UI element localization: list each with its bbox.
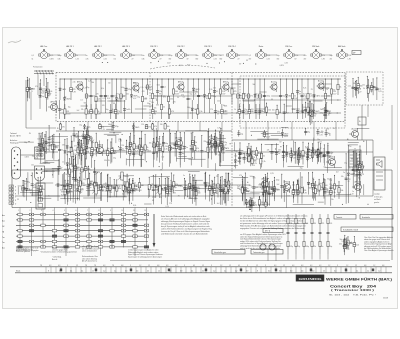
capacitor C66 50µ (204, 173, 210, 193)
capacitor C87 10µ (288, 181, 298, 198)
capacitor C81 50µ (306, 149, 312, 161)
svg-text:5k: 5k (286, 153, 288, 155)
wire (363, 184, 365, 195)
svg-text:47k: 47k (277, 131, 280, 133)
svg-text:10k: 10k (109, 188, 112, 190)
wire (95, 100, 106, 102)
socket Bu3 (35, 166, 45, 181)
junction (236, 113, 237, 114)
svg-text:5n: 5n (343, 172, 345, 174)
svg-text:10k: 10k (31, 165, 34, 167)
svg-text:15k: 15k (362, 85, 365, 87)
capacitor C28 500p (316, 129, 323, 137)
diode D29 (187, 100, 198, 119)
resistor R101 15k (112, 179, 122, 197)
junction (254, 64, 257, 65)
wire (321, 95, 333, 97)
resistor R24 5k (156, 95, 165, 119)
svg-text:1n: 1n (267, 191, 269, 193)
svg-text:6,3: 6,3 (312, 270, 314, 272)
svg-text:15k: 15k (67, 192, 70, 194)
resistor R125 2,2k (207, 180, 217, 205)
svg-text:Wiedergabe: Wiedergabe (10, 143, 19, 145)
svg-text:Klang: Klang (162, 190, 166, 192)
resistor R93 10k (102, 175, 112, 203)
svg-text:1k: 1k (237, 188, 239, 190)
resistor R87 470 (79, 173, 84, 194)
junction (30, 202, 31, 203)
wire (275, 246, 277, 261)
svg-text:bei siehe Ohm Chassis: bei siehe Ohm Chassis (82, 248, 99, 250)
wire (318, 87, 329, 89)
svg-text:1,5k: 1,5k (303, 107, 306, 109)
svg-text:120: 120 (83, 170, 86, 172)
junction (190, 113, 191, 114)
diode D150 (286, 145, 293, 162)
diode D143 (185, 176, 196, 198)
svg-text:12: 12 (76, 265, 78, 267)
svg-text:OA70: OA70 (28, 188, 32, 191)
svg-text:47n: 47n (352, 87, 355, 89)
svg-text:6,3: 6,3 (301, 265, 303, 267)
resistor R65 15k (91, 133, 101, 157)
capacitor C47 22n (155, 136, 165, 163)
svg-text:0,1: 0,1 (70, 270, 72, 272)
svg-text:270: 270 (213, 88, 216, 90)
resistor R42 2,2k (255, 79, 265, 114)
wire (353, 169, 355, 177)
resistor R46 1,5k (303, 79, 313, 114)
wire (52, 167, 62, 169)
wire bus mid D (12, 169, 392, 171)
resistor R219 56k (245, 197, 255, 208)
svg-text:45: 45 (147, 270, 149, 272)
diode D95 (103, 174, 114, 198)
svg-text:47k: 47k (37, 183, 40, 185)
capacitor C69 25µ (194, 182, 200, 200)
svg-text:78: 78 (40, 265, 42, 267)
capacitor C128 4,7n (320, 107, 330, 122)
AFC unit outline (346, 72, 383, 105)
wire (155, 128, 157, 141)
svg-text:78: 78 (94, 265, 96, 267)
resistor R54 100 (160, 123, 170, 130)
wire (259, 91, 266, 93)
svg-text:25µ: 25µ (113, 158, 116, 160)
svg-text:0,1: 0,1 (191, 270, 193, 272)
svg-text:2,2k: 2,2k (265, 179, 268, 181)
svg-text:1,5k: 1,5k (110, 109, 113, 111)
resistor R76 100 (129, 133, 135, 156)
svg-text:1n: 1n (220, 55, 222, 57)
wire (281, 126, 288, 128)
svg-text:50µ: 50µ (277, 55, 280, 57)
svg-text:50µ: 50µ (340, 239, 343, 241)
svg-text:5k: 5k (263, 156, 265, 158)
resistor R131 680 (189, 174, 194, 198)
capacitor C119 0,1 (243, 153, 248, 164)
svg-text:Schaltbild Nr. 55128: Schaltbild Nr. 55128 (343, 228, 358, 231)
svg-text:AF127: AF127 (51, 100, 56, 103)
capacitor C104 25µ (27, 173, 37, 197)
svg-text:55128: 55128 (383, 297, 388, 299)
wire (172, 185, 182, 187)
diode D155 (250, 146, 257, 163)
junction (329, 135, 330, 136)
svg-text:1,5k: 1,5k (199, 111, 202, 113)
svg-text:1k: 1k (238, 55, 240, 57)
transistor T1 AF106 (76, 81, 84, 92)
capacitor C92 10µ (324, 179, 331, 205)
svg-text:15k: 15k (129, 184, 132, 186)
svg-text:10µ: 10µ (137, 96, 140, 98)
svg-text:1n: 1n (278, 153, 280, 155)
svg-text:0,1: 0,1 (164, 87, 166, 89)
resistor R77 4,7k (74, 139, 84, 156)
transistor T15 AF127 (352, 180, 361, 193)
svg-text:47k: 47k (250, 96, 253, 98)
resistor R191 22k (354, 154, 364, 181)
wire (348, 142, 359, 144)
resistor R74 100 (140, 138, 145, 167)
junction (330, 163, 331, 164)
svg-text:22n: 22n (75, 178, 78, 180)
resistor R56 270 (59, 123, 64, 131)
capacitor C103 30p (41, 131, 51, 154)
resistor R72 8,2k (138, 138, 144, 156)
resistor R104 1,5k (148, 177, 154, 197)
svg-text:3,9: 3,9 (180, 270, 182, 272)
svg-text:1,5k: 1,5k (310, 96, 313, 98)
capacitor C26 125p (108, 122, 119, 131)
resistor R209 15k (353, 77, 363, 94)
svg-text:5k: 5k (340, 87, 342, 89)
wire (177, 122, 179, 132)
svg-text:4,7n: 4,7n (101, 88, 104, 90)
diode D105 (125, 178, 136, 204)
svg-text:1n: 1n (190, 99, 192, 101)
svg-text:680: 680 (141, 185, 144, 187)
svg-text:FM ZF 2: FM ZF 2 (177, 46, 184, 48)
wire (313, 147, 315, 153)
capacitor C13 1n (183, 79, 192, 120)
svg-text:ohne bei gegen Seite: ohne bei gegen Seite (52, 248, 68, 251)
svg-text:500p: 500p (96, 172, 100, 174)
svg-text:5k: 5k (32, 59, 34, 61)
svg-text:100: 100 (272, 110, 275, 112)
wire (49, 136, 68, 138)
transistor T2 AF125 (132, 82, 140, 93)
wire (176, 158, 191, 160)
capacitor C118 22n (68, 159, 78, 197)
resistor R208 100 (367, 82, 377, 92)
resistor R106 1k (90, 174, 99, 194)
svg-text:10k log: 10k log (98, 190, 104, 192)
tuner inner divider (231, 73, 233, 208)
capacitor C33 0,1 (119, 139, 124, 159)
svg-text:6,3: 6,3 (290, 270, 292, 272)
svg-text:10k: 10k (358, 178, 361, 180)
svg-text:330: 330 (198, 193, 201, 195)
junction (254, 100, 255, 101)
svg-text:680: 680 (45, 162, 48, 164)
svg-text:abweichen gegen sind Chassis o: abweichen gegen sind Chassis ohne (364, 239, 390, 241)
svg-text:0,8: 0,8 (382, 265, 384, 267)
svg-text:100: 100 (325, 185, 328, 187)
capacitor C8 50µ (106, 104, 116, 119)
svg-text:2,2k: 2,2k (222, 91, 225, 93)
svg-text:0,1: 0,1 (328, 111, 330, 113)
svg-text:FM Osz.: FM Osz. (285, 46, 293, 48)
resistor R147 680 (313, 142, 323, 163)
svg-text:5k: 5k (98, 111, 100, 113)
capacitor C74 0,1 (319, 148, 328, 163)
capacitor C73 125p (326, 143, 333, 162)
svg-text:1n: 1n (244, 156, 246, 158)
dial scale band (10, 265, 392, 273)
capacitor C29 10µ (237, 130, 243, 136)
svg-text:100: 100 (267, 204, 270, 206)
svg-text:10µ: 10µ (42, 96, 45, 98)
junction (31, 175, 32, 176)
wire (27, 172, 29, 188)
svg-text:4,7n: 4,7n (245, 111, 248, 113)
svg-text:Aus: Aus (2, 214, 5, 217)
svg-text:270: 270 (169, 191, 172, 193)
diode D203 (66, 165, 73, 205)
resistor R157 120 (293, 148, 303, 165)
wire (109, 196, 127, 198)
resistor R175 1k (260, 174, 269, 205)
svg-text:12: 12 (92, 270, 94, 272)
wire (40, 162, 51, 164)
svg-text:120: 120 (48, 95, 51, 97)
svg-text:22k: 22k (217, 101, 220, 103)
wire (30, 92, 32, 120)
capacitor C19 10n (258, 104, 264, 119)
resistor R145 5k (256, 144, 265, 168)
svg-text:3,3k: 3,3k (260, 110, 263, 112)
svg-text:220p: 220p (173, 187, 177, 189)
svg-text:2,1: 2,1 (367, 270, 369, 272)
svg-text:25µ: 25µ (348, 179, 351, 181)
svg-text:125p: 125p (135, 154, 139, 156)
DIN socket Bu1 (12, 147, 21, 179)
svg-text:680: 680 (196, 59, 199, 61)
junction (85, 79, 86, 80)
wire (271, 95, 279, 97)
capacitor C30 25µ (304, 128, 310, 135)
svg-text:680: 680 (251, 111, 254, 113)
svg-text:2,2k: 2,2k (267, 55, 270, 57)
capacitor C37 125p (63, 172, 70, 199)
resistor R36 470 (233, 79, 244, 114)
svg-text:47n: 47n (304, 55, 307, 57)
svg-text:25µ: 25µ (182, 148, 185, 150)
wire (233, 177, 248, 179)
wire (327, 254, 329, 260)
wire (257, 138, 278, 140)
junction (210, 142, 211, 143)
resistor R85 470 (105, 177, 115, 197)
wire (115, 184, 117, 190)
svg-text:8,2k: 8,2k (128, 149, 131, 151)
resistor R182 56k (44, 134, 50, 164)
capacitor C43 30p (212, 137, 222, 155)
switch arrow (153, 214, 155, 246)
svg-text:8,2k: 8,2k (221, 187, 224, 189)
resistor R34 680 (221, 104, 229, 119)
tuning gang link (150, 65, 215, 69)
label box A (212, 250, 245, 255)
svg-text:1n: 1n (60, 167, 62, 169)
resistor R35 470 (231, 79, 236, 105)
alignment point FM Vork. (304, 45, 333, 61)
svg-text:270: 270 (322, 223, 325, 225)
resistor R78 1k (103, 139, 112, 166)
wire (148, 188, 150, 198)
svg-text:15k: 15k (170, 99, 173, 101)
pencil mark (8, 40, 21, 43)
diode D140 (211, 181, 218, 194)
svg-text:125p: 125p (217, 140, 221, 142)
wire (143, 105, 152, 107)
wire (267, 193, 274, 195)
wire (61, 191, 73, 193)
svg-text:12: 12 (145, 210, 147, 212)
wire bus mid F (15, 195, 373, 197)
capacitor C2 125p (35, 79, 46, 97)
resistor R172 47k (309, 179, 319, 201)
svg-text:( Transistor 1000 ): ( Transistor 1000 ) (331, 288, 374, 292)
svg-text:OA79: OA79 (131, 190, 135, 193)
wire (19, 141, 34, 143)
wire (134, 248, 136, 257)
wire (366, 141, 368, 155)
wire (242, 193, 260, 195)
wire (291, 122, 293, 141)
capacitor C70 4,7n (267, 144, 277, 160)
svg-text:2,2k: 2,2k (170, 142, 173, 144)
capacitor C63 125p (223, 179, 230, 204)
svg-text:45: 45 (193, 265, 195, 267)
resistor R216 120 (265, 103, 270, 116)
resistor R94 4,7k (124, 179, 135, 201)
wire (65, 122, 67, 132)
capacitor C67 4,7n (152, 175, 158, 205)
wire bus tuner top (60, 78, 341, 80)
wire (109, 131, 121, 133)
svg-text:330: 330 (169, 59, 172, 61)
wire (286, 105, 292, 107)
resistor R129 330 (195, 180, 200, 206)
svg-text:25µ: 25µ (300, 168, 303, 170)
resistor R33 2,2k (219, 79, 226, 105)
resistor R176 270 (262, 173, 273, 206)
svg-text:0,1: 0,1 (342, 241, 344, 243)
svg-text:10µ: 10µ (225, 110, 228, 112)
svg-text:2,1: 2,1 (224, 270, 226, 272)
svg-text:2n2: 2n2 (319, 141, 322, 143)
capacitor C106 100p (355, 153, 362, 197)
wire (287, 254, 289, 260)
diode D48 (312, 104, 319, 119)
capacitor C71 1n (275, 144, 280, 164)
wire (87, 122, 89, 132)
legend string 4 (311, 214, 317, 254)
capacitor C42 25µ (179, 132, 185, 165)
svg-text:10k: 10k (128, 109, 131, 111)
svg-text:10n: 10n (142, 55, 145, 57)
junction (280, 146, 281, 147)
svg-text:30p: 30p (282, 96, 285, 98)
svg-text:5n: 5n (86, 55, 88, 57)
svg-text:10n: 10n (378, 89, 381, 91)
wire (81, 105, 88, 107)
resistor R50 120 (326, 79, 337, 105)
svg-text:L: L (15, 197, 16, 199)
wire (104, 133, 119, 135)
wire (52, 169, 54, 178)
svg-text:270: 270 (253, 177, 256, 179)
svg-text:22k: 22k (81, 109, 84, 111)
svg-text:2,2k: 2,2k (60, 190, 63, 192)
svg-text:5k: 5k (187, 55, 189, 57)
resistor R59 330 (263, 130, 271, 138)
svg-text:0,1: 0,1 (122, 148, 124, 150)
resistor R100 680 (134, 178, 144, 192)
capacitor C72 47n (246, 146, 252, 162)
svg-text:1,5k: 1,5k (235, 151, 238, 153)
resistor R112 470 (215, 134, 226, 166)
svg-text:Transist.: Transist. (336, 216, 343, 219)
capacitor C116 1n (57, 159, 62, 175)
wire (367, 105, 369, 117)
svg-text:50µ: 50µ (106, 109, 109, 111)
svg-text:St. 103 - 104 T.B. Febr. PV: St. 103 - 104 T.B. Febr. PV. ! (329, 293, 377, 296)
wire (357, 128, 370, 130)
svg-text:22n: 22n (159, 91, 162, 93)
wire (267, 122, 269, 141)
svg-text:FM Vork.: FM Vork. (312, 45, 320, 48)
svg-text:1k: 1k (119, 186, 121, 188)
capacitor C20 100p (263, 79, 270, 114)
resistor R80 1k (137, 131, 146, 167)
wire (65, 248, 67, 257)
diode D181 (38, 133, 46, 157)
potentiometer 10k log (93, 186, 104, 194)
wire (100, 126, 113, 128)
svg-text:geschr.: geschr. (374, 201, 380, 204)
capacitor C39 125p (109, 179, 120, 196)
wire (220, 165, 238, 167)
svg-text:500p: 500p (108, 124, 112, 126)
transistor T11 AF121 (259, 177, 268, 190)
svg-text:5k: 5k (272, 187, 274, 189)
svg-text:47n: 47n (200, 96, 203, 98)
svg-text:470: 470 (234, 91, 237, 93)
capacitor C78 25µ (319, 143, 325, 162)
wire (43, 161, 55, 163)
wire (199, 122, 201, 132)
svg-text:22k: 22k (304, 190, 307, 192)
diode D121 (218, 135, 229, 161)
svg-text:470: 470 (174, 144, 177, 146)
svg-text:5k: 5k (154, 96, 156, 98)
svg-text:0,1: 0,1 (111, 96, 113, 98)
svg-text:pF in abweichen Signal: pF in abweichen Signal (82, 246, 99, 248)
svg-text:FM ZF 3: FM ZF 3 (204, 46, 211, 48)
